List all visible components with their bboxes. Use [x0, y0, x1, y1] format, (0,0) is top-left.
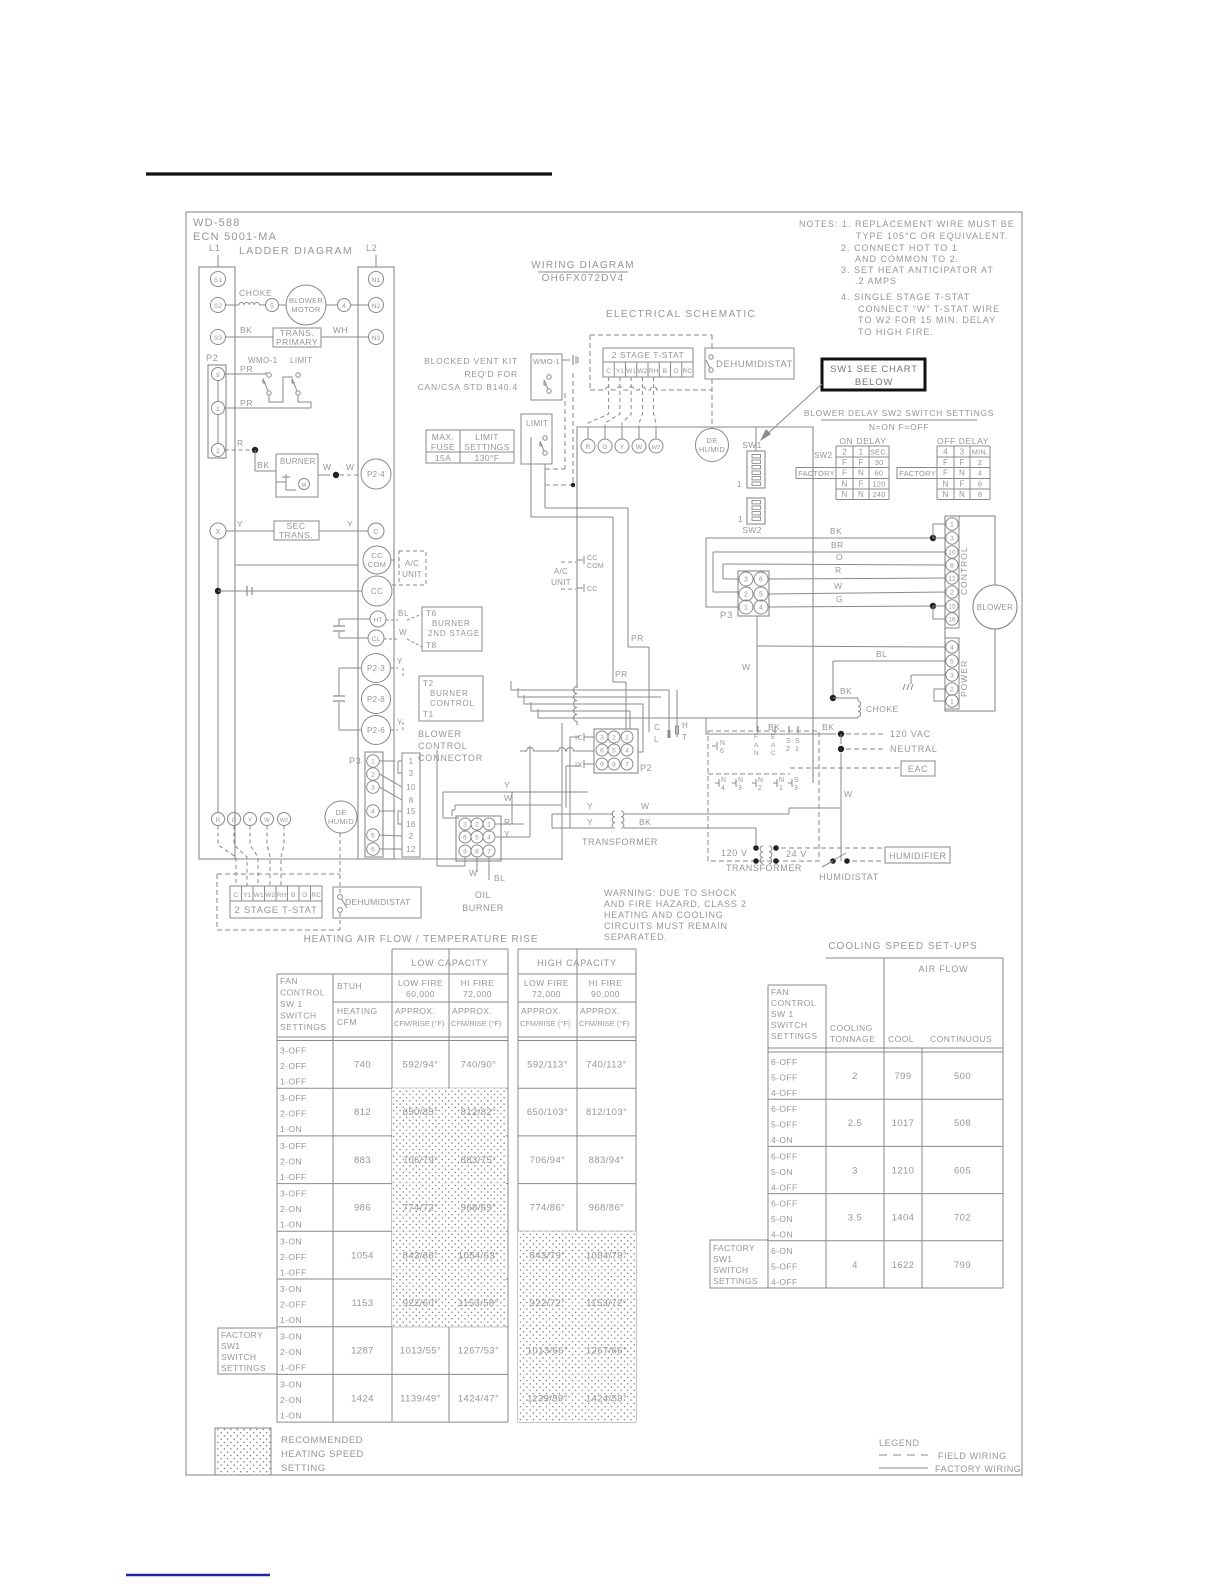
svg-text:L1: L1: [209, 243, 221, 253]
ladder bottom wire: [199, 858, 563, 860]
IC IX tags: [566, 733, 594, 828]
svg-text:799: 799: [954, 1260, 971, 1271]
svg-text:CHOKE: CHOKE: [239, 288, 272, 298]
svg-text:LIMIT: LIMIT: [526, 419, 548, 428]
harness wires: [511, 681, 669, 752]
svg-text:SETTINGS: SETTINGS: [280, 1022, 327, 1032]
svg-text:4-ON: 4-ON: [771, 1230, 793, 1240]
svg-text:1: 1: [409, 757, 414, 766]
svg-text:7: 7: [487, 849, 491, 856]
svg-text:COM: COM: [587, 563, 604, 570]
node 4: [338, 299, 351, 312]
svg-text:1-OFF: 1-OFF: [280, 1267, 307, 1277]
svg-text:N: N: [943, 490, 949, 499]
svg-text:883: 883: [354, 1155, 371, 1166]
svg-text:POWER: POWER: [959, 660, 969, 697]
svg-text:HEATING SPEED: HEATING SPEED: [281, 1449, 364, 1460]
svg-text:843/66°: 843/66°: [403, 1250, 439, 1261]
svg-text:5: 5: [759, 592, 763, 599]
dip switch SW1: [737, 427, 765, 489]
svg-text:CONNECT “W” T-STAT WIRE: CONNECT “W” T-STAT WIRE: [858, 304, 1000, 314]
svg-text:PR: PR: [240, 364, 253, 374]
svg-text:706/94°: 706/94°: [530, 1155, 566, 1166]
svg-text:2 STAGE T-STAT: 2 STAGE T-STAT: [612, 350, 685, 360]
terminal P2-4: [361, 459, 391, 489]
t-stat drop wires: [218, 826, 340, 931]
2 stage t-stat strip ladder: [230, 886, 322, 918]
svg-text:BURNER: BURNER: [432, 619, 471, 628]
svg-text:LADDER DIAGRAM: LADDER DIAGRAM: [239, 245, 353, 257]
blower assembly outline: [945, 516, 995, 711]
svg-text:N1: N1: [372, 277, 381, 284]
humidistat: [781, 848, 883, 882]
svg-text:4: 4: [943, 448, 948, 457]
svg-text:8: 8: [409, 796, 414, 805]
transformer secondary: [210, 519, 384, 540]
svg-text:SW1: SW1: [742, 440, 762, 450]
svg-text:774/72°: 774/72°: [403, 1203, 439, 1214]
svg-text:2: 2: [744, 592, 748, 599]
capacitor p2: [333, 668, 361, 730]
svg-text:1-ON: 1-ON: [280, 1124, 302, 1134]
svg-text:W: W: [641, 801, 650, 811]
svg-text:CONTROL: CONTROL: [959, 546, 969, 595]
svg-text:2: 2: [216, 448, 220, 455]
svg-text:5: 5: [475, 835, 479, 842]
terminal N1: [369, 272, 384, 287]
svg-text:1210: 1210: [892, 1165, 915, 1176]
blower circle: [973, 585, 1017, 629]
svg-text:TONNAGE: TONNAGE: [830, 1034, 875, 1044]
svg-text:N: N: [959, 490, 965, 499]
connector P2 ladder: [206, 353, 226, 458]
svg-text:BK: BK: [240, 325, 252, 335]
svg-text:1-ON: 1-ON: [280, 1410, 302, 1420]
svg-text:Y1: Y1: [616, 368, 624, 375]
svg-text:4-OFF: 4-OFF: [771, 1088, 798, 1098]
svg-text:N: N: [779, 777, 784, 784]
svg-text:T8: T8: [426, 641, 437, 650]
svg-text:COOL: COOL: [888, 1034, 914, 1044]
svg-text:P2: P2: [640, 763, 652, 773]
svg-text:1013/66°: 1013/66°: [527, 1346, 568, 1357]
svg-text:S: S: [794, 777, 799, 784]
svg-text:FAN: FAN: [771, 987, 789, 997]
svg-text:N3: N3: [372, 335, 381, 342]
svg-text:COOLING SPEED SET-UPS: COOLING SPEED SET-UPS: [828, 941, 977, 952]
wire X down: [217, 539, 219, 812]
svg-text:3: 3: [950, 673, 954, 680]
svg-text:3: 3: [960, 448, 965, 457]
svg-text:N: N: [858, 490, 864, 499]
svg-text:2-ON: 2-ON: [280, 1156, 302, 1166]
title rule bar: [146, 172, 552, 175]
svg-text:W: W: [469, 868, 478, 878]
svg-text:B: B: [291, 892, 295, 899]
svg-text:RC: RC: [311, 892, 321, 899]
svg-text:4: 4: [487, 835, 491, 842]
120vac neutral stubs: [706, 722, 938, 861]
t-stat cell drops: [588, 377, 656, 427]
svg-text:1287: 1287: [351, 1346, 374, 1357]
svg-text:16: 16: [406, 820, 416, 829]
svg-text:T2: T2: [423, 679, 434, 688]
contact LIMIT ladder: [290, 356, 312, 395]
svg-text:P3: P3: [720, 610, 733, 621]
svg-text:CC: CC: [587, 586, 598, 593]
svg-text:1424/59°: 1424/59°: [586, 1393, 627, 1404]
svg-text:6: 6: [978, 479, 982, 488]
svg-text:1404: 1404: [892, 1213, 915, 1224]
svg-text:FACTORY: FACTORY: [899, 469, 936, 478]
svg-text:CIRCUITS MUST REMAIN: CIRCUITS MUST REMAIN: [604, 921, 728, 931]
svg-text:T6: T6: [426, 609, 437, 618]
svg-text:1: 1: [795, 746, 799, 753]
svg-text:W: W: [346, 462, 355, 472]
wire to power 4: [706, 616, 946, 734]
svg-text:LOW CAPACITY: LOW CAPACITY: [412, 958, 489, 968]
svg-text:F: F: [754, 734, 758, 741]
svg-text:R: R: [237, 438, 244, 448]
svg-text:DE: DE: [706, 436, 717, 445]
svg-text:90,000: 90,000: [591, 989, 620, 999]
terminal S1: [211, 272, 226, 287]
svg-text:W: W: [504, 793, 513, 803]
thermostat terminals ladder: [212, 813, 291, 826]
svg-text:FUSE: FUSE: [431, 442, 455, 452]
svg-text:MIN.: MIN.: [972, 448, 989, 457]
svg-text:3-OFF: 3-OFF: [280, 1046, 307, 1056]
svg-text:SW 1: SW 1: [771, 1009, 794, 1019]
choke L ladder: [226, 288, 273, 305]
svg-text:15: 15: [948, 604, 956, 611]
svg-text:6-OFF: 6-OFF: [771, 1199, 798, 1209]
svg-text:S: S: [795, 738, 800, 745]
svg-text:8: 8: [612, 762, 616, 769]
svg-text:F: F: [842, 458, 847, 467]
svg-text:1: 1: [737, 480, 742, 489]
svg-text:HI FIRE: HI FIRE: [461, 978, 495, 988]
svg-text:CONTROL: CONTROL: [280, 988, 325, 998]
drawing frame: [186, 212, 1022, 1475]
svg-text:6: 6: [759, 577, 763, 584]
svg-text:FACTORY WIRING: FACTORY WIRING: [935, 1464, 1021, 1474]
svg-text:3: 3: [744, 577, 748, 584]
svg-text:2.5: 2.5: [848, 1118, 862, 1129]
svg-text:W2: W2: [652, 445, 660, 451]
svg-text:1: 1: [779, 785, 783, 792]
svg-text:A/C: A/C: [554, 567, 568, 576]
svg-text:O: O: [302, 892, 307, 899]
svg-text:2. CONNECT HOT TO 1: 2. CONNECT HOT TO 1: [841, 243, 958, 253]
svg-text:P2-3: P2-3: [367, 664, 385, 673]
svg-text:4: 4: [950, 645, 954, 652]
schematic rail: [577, 427, 813, 783]
svg-text:740/113°: 740/113°: [586, 1060, 627, 1071]
svg-text:REQ'D FOR: REQ'D FOR: [464, 369, 518, 379]
fuse link IL: [218, 586, 362, 596]
rail L2: [358, 243, 394, 859]
harness vertical: [574, 427, 578, 725]
svg-text:1-OFF: 1-OFF: [280, 1077, 307, 1087]
svg-text:BLOWER DELAY SW2 SWITCH SETTIN: BLOWER DELAY SW2 SWITCH SETTINGS: [804, 408, 994, 418]
svg-text:4: 4: [759, 605, 763, 612]
CL HT pins: [654, 690, 688, 744]
svg-text:A: A: [771, 742, 776, 749]
svg-text:1013/55°: 1013/55°: [400, 1346, 441, 1357]
svg-text:2-OFF: 2-OFF: [280, 1300, 307, 1310]
svg-text:24 V: 24 V: [786, 849, 807, 859]
svg-text:1153/58°: 1153/58°: [458, 1298, 499, 1309]
svg-text:G: G: [602, 444, 607, 451]
terminal S3: [211, 330, 226, 345]
svg-text:812/82°: 812/82°: [461, 1107, 497, 1118]
svg-text:3: 3: [738, 785, 742, 792]
svg-text:SEPARATED.: SEPARATED.: [604, 932, 668, 942]
terminal N3: [369, 330, 384, 345]
pin list box: [402, 753, 420, 857]
svg-text:4-OFF: 4-OFF: [771, 1277, 798, 1287]
svg-text:SW2: SW2: [742, 525, 762, 535]
tag BL T6: [386, 609, 422, 620]
svg-text:CFM/RISE (°F): CFM/RISE (°F): [394, 1019, 444, 1028]
svg-text:BELOW: BELOW: [855, 377, 893, 388]
svg-text:60: 60: [875, 469, 884, 478]
svg-text:SW1 SEE CHART: SW1 SEE CHART: [830, 364, 918, 375]
contact link wires: [225, 377, 312, 408]
svg-text:592/94°: 592/94°: [403, 1060, 439, 1071]
svg-text:P2-6: P2-6: [367, 726, 385, 735]
svg-text:CONTROL: CONTROL: [771, 998, 816, 1008]
svg-text:W: W: [399, 628, 407, 637]
svg-text:R: R: [504, 817, 511, 827]
svg-text:P2-4: P2-4: [367, 470, 385, 479]
dip switch SW2: [738, 498, 765, 535]
svg-text:1424: 1424: [351, 1393, 374, 1404]
svg-text:S2: S2: [214, 303, 223, 310]
svg-text:2: 2: [842, 448, 847, 457]
svg-text:BL: BL: [494, 873, 505, 883]
burner box ladder: [276, 454, 318, 497]
svg-text:2-ON: 2-ON: [280, 1347, 302, 1357]
svg-text:740: 740: [354, 1060, 371, 1071]
svg-text:SW1: SW1: [221, 1341, 240, 1351]
svg-text:30: 30: [875, 458, 884, 467]
svg-text:9: 9: [600, 762, 604, 769]
transformer small: [552, 801, 841, 847]
svg-text:1-OFF: 1-OFF: [280, 1363, 307, 1373]
svg-text:60,000: 60,000: [406, 989, 435, 999]
p3 pin wires: [380, 761, 403, 849]
inner return wire: [235, 564, 358, 566]
svg-text:N2: N2: [372, 303, 381, 310]
svg-text:130°F: 130°F: [475, 453, 500, 463]
svg-text:3-ON: 3-ON: [280, 1284, 302, 1294]
svg-text:240: 240: [872, 490, 885, 499]
choke schematic: [538, 686, 899, 718]
svg-text:2-ON: 2-ON: [280, 1204, 302, 1214]
svg-text:1: 1: [950, 699, 954, 706]
svg-text:ELECTRICAL SCHEMATIC: ELECTRICAL SCHEMATIC: [606, 309, 756, 320]
svg-text:HEATING AND COOLING: HEATING AND COOLING: [604, 910, 724, 920]
svg-text:500: 500: [954, 1071, 971, 1082]
svg-text:5-OFF: 5-OFF: [771, 1073, 798, 1083]
svg-text:N: N: [959, 469, 965, 478]
rail L1: [199, 243, 235, 859]
svg-text:1-ON: 1-ON: [280, 1220, 302, 1230]
svg-text:APPROX.: APPROX.: [580, 1006, 620, 1016]
svg-text:BURNER: BURNER: [430, 689, 469, 698]
svg-text:LIMIT: LIMIT: [290, 356, 312, 365]
svg-text:X: X: [216, 529, 221, 536]
svg-text:1-ON: 1-ON: [280, 1315, 302, 1325]
svg-text:N: N: [758, 777, 763, 784]
svg-text:F: F: [858, 458, 863, 467]
LIMIT switch schematic: [521, 414, 552, 464]
svg-text:E: E: [771, 734, 776, 741]
svg-text:3. SET HEAT ANTICIPATOR AT: 3. SET HEAT ANTICIPATOR AT: [841, 265, 994, 275]
svg-text:1153/72°: 1153/72°: [586, 1298, 627, 1309]
wire R: [768, 565, 946, 579]
svg-text:N: N: [738, 777, 743, 784]
wire G: [768, 594, 946, 619]
svg-text:SETTINGS: SETTINGS: [464, 442, 510, 452]
svg-text:TRANS.: TRANS.: [279, 530, 313, 540]
svg-text:SWITCH: SWITCH: [280, 1011, 317, 1021]
svg-text:6: 6: [720, 748, 724, 755]
svg-text:986: 986: [354, 1203, 371, 1214]
cooling table: [768, 941, 1003, 1288]
oil burner wires: [437, 746, 588, 883]
wire W: [768, 581, 946, 594]
svg-text:16: 16: [948, 617, 956, 624]
svg-text:1267/66°: 1267/66°: [586, 1346, 627, 1357]
svg-text:1424/47°: 1424/47°: [458, 1393, 499, 1404]
burner control box: [419, 676, 483, 721]
svg-text:RH: RH: [649, 368, 659, 375]
svg-text:WH: WH: [333, 325, 348, 335]
svg-text:W: W: [844, 789, 853, 799]
svg-text:120: 120: [872, 479, 885, 488]
svg-text:3-OFF: 3-OFF: [280, 1141, 307, 1151]
svg-text:1017: 1017: [892, 1118, 915, 1129]
oil burner label: [462, 890, 504, 913]
PR wire 1: [628, 508, 649, 732]
svg-text:922/72°: 922/72°: [530, 1298, 566, 1309]
svg-text:NEUTRAL: NEUTRAL: [890, 744, 938, 754]
svg-text:F: F: [959, 479, 964, 488]
svg-text:CAN/CSA STD B140.4: CAN/CSA STD B140.4: [418, 382, 518, 392]
svg-text:6-OFF: 6-OFF: [771, 1057, 798, 1067]
svg-text:PR: PR: [631, 633, 644, 643]
legend: [879, 1438, 1021, 1474]
svg-text:812: 812: [354, 1107, 371, 1118]
svg-text:BK: BK: [830, 526, 842, 536]
svg-text:5-OFF: 5-OFF: [771, 1261, 798, 1271]
svg-text:6-OFF: 6-OFF: [771, 1151, 798, 1161]
recommended legend swatch: [215, 1428, 364, 1475]
svg-text:CHOKE: CHOKE: [866, 704, 899, 714]
svg-text:TO W2 FOR 15 MIN. DELAY: TO W2 FOR 15 MIN. DELAY: [858, 315, 996, 325]
svg-text:Y: Y: [504, 780, 510, 790]
svg-text:BK: BK: [257, 460, 270, 470]
svg-text:508: 508: [954, 1118, 971, 1129]
contact WMO-1 ladder: [225, 356, 278, 395]
svg-text:2: 2: [852, 1071, 858, 1082]
svg-text:3-OFF: 3-OFF: [280, 1093, 307, 1103]
svg-text:2 STAGE T-STAT: 2 STAGE T-STAT: [235, 905, 318, 916]
svg-text:LOW FIRE: LOW FIRE: [524, 978, 569, 988]
connector P2 schematic: [594, 729, 652, 773]
svg-text:8: 8: [950, 563, 954, 570]
thermal fuse tag: [562, 355, 578, 365]
svg-text:650/103°: 650/103°: [527, 1107, 568, 1118]
svg-text:LIMIT: LIMIT: [475, 432, 499, 442]
svg-text:BLOWER: BLOWER: [977, 603, 1013, 612]
svg-text:SWITCH: SWITCH: [221, 1352, 256, 1362]
svg-text:CFM/RISE (°F): CFM/RISE (°F): [520, 1019, 570, 1028]
svg-text:843/79°: 843/79°: [530, 1250, 566, 1261]
svg-text:COM: COM: [368, 560, 386, 569]
terminal P2-3: [362, 654, 391, 683]
terminal CC: [362, 576, 392, 606]
fan eac labels: [754, 726, 776, 757]
svg-text:PR: PR: [240, 398, 253, 408]
svg-text:W2: W2: [637, 368, 647, 375]
svg-text:8: 8: [978, 490, 982, 499]
svg-text:R: R: [216, 818, 221, 824]
svg-text:CONTROL: CONTROL: [430, 699, 475, 708]
svg-text:4: 4: [625, 748, 629, 755]
svg-text:10: 10: [406, 783, 416, 792]
svg-text:5: 5: [950, 659, 954, 666]
svg-text:Y: Y: [397, 718, 403, 727]
wire to limit run: [531, 437, 628, 859]
svg-text:WARNING: DUE TO SHOCK: WARNING: DUE TO SHOCK: [604, 888, 737, 898]
terminal P2-6: [362, 716, 391, 745]
svg-text:2-ON: 2-ON: [280, 1395, 302, 1405]
svg-text:8: 8: [475, 849, 479, 856]
svg-text:RECOMMENDED: RECOMMENDED: [281, 1435, 363, 1446]
on delay table: [796, 436, 889, 500]
svg-text:SEC.: SEC.: [870, 448, 888, 457]
svg-text:F: F: [943, 458, 948, 467]
wire power3 ground: [903, 675, 946, 690]
svg-text:BK: BK: [840, 686, 852, 696]
svg-text:968/86°: 968/86°: [589, 1203, 625, 1214]
svg-text:B: B: [663, 368, 667, 375]
tag W T8: [384, 628, 422, 647]
terminal HT: [370, 611, 386, 627]
svg-text:Y: Y: [248, 818, 252, 824]
svg-text:2-OFF: 2-OFF: [280, 1109, 307, 1119]
PR wire 2: [613, 517, 628, 729]
svg-text:SETTING: SETTING: [281, 1463, 326, 1474]
terminal N2: [369, 298, 384, 313]
node 5: [266, 299, 279, 312]
A/C unit tag ladder: [391, 551, 426, 585]
svg-text:1: 1: [950, 522, 954, 529]
terminal S2: [211, 298, 226, 313]
junction node: [215, 588, 221, 594]
svg-text:F: F: [943, 469, 948, 478]
svg-text:6-ON: 6-ON: [771, 1246, 793, 1256]
warning note: [604, 888, 747, 942]
svg-text:TO HIGH FIRE.: TO HIGH FIRE.: [858, 327, 934, 337]
svg-text:SETTINGS: SETTINGS: [713, 1276, 758, 1286]
svg-text:1-OFF: 1-OFF: [280, 1172, 307, 1182]
svg-text:774/86°: 774/86°: [530, 1203, 566, 1214]
